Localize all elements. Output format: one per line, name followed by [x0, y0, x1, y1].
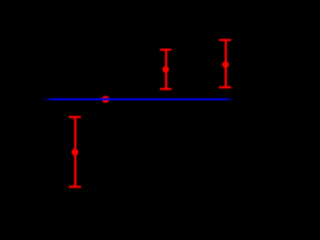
blue fit line — [43, 98, 235, 100]
data point B (under fit line) — [102, 96, 109, 103]
error bar A — [69, 116, 81, 188]
error bar C — [160, 49, 172, 91]
error bar D — [219, 39, 231, 88]
